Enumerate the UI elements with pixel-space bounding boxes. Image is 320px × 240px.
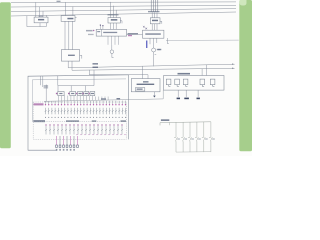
- K1 left tag line2: [88, 34, 94, 35]
- UPS right tick: [80, 55, 82, 58]
- U3 bottom wires: [111, 23, 117, 29]
- solenoid branch 6: [209, 122, 212, 152]
- M2 tail wire: [111, 54, 113, 58]
- bus drop 2: [70, 86, 72, 92]
- wire 24V to PLC: [141, 66, 143, 79]
- relay CR5: [210, 79, 215, 86]
- K1 bottom pins: [108, 36, 119, 45]
- branch 4 tag: [198, 138, 201, 139]
- relay output stub A: [177, 90, 179, 97]
- tap labels: [44, 85, 49, 89]
- wire 0V to PLC: [89, 70, 148, 79]
- output card divider: [33, 121, 126, 123]
- breaker CB4: [85, 93, 88, 94]
- CB4 tag: [82, 93, 83, 94]
- breaker feed wire: [57, 76, 59, 86]
- solenoid branch 5: [202, 122, 205, 152]
- solenoid branch 2: [181, 122, 184, 152]
- CB3 tag: [76, 93, 77, 94]
- cabinet enclosure: [28, 75, 129, 150]
- PSU1 aux pin 1: [149, 38, 151, 44]
- stub B label: [184, 98, 189, 100]
- 115VAC label: [128, 33, 138, 35]
- transformer T1: [34, 17, 48, 23]
- M1 label: [158, 49, 162, 50]
- relay bank 24V feed: [206, 65, 208, 76]
- cpu label: [137, 89, 143, 90]
- bus drop 3: [84, 86, 86, 92]
- UPS output pins: [68, 61, 72, 70]
- U10 ground symbol: [153, 96, 156, 98]
- branch 6 tag: [212, 138, 215, 139]
- fuse marks F1: [143, 26, 147, 29]
- breaker CB1: [59, 93, 62, 94]
- branch 1 tag: [177, 138, 180, 139]
- breaker CB2: [71, 93, 74, 94]
- input terminal dots: [45, 104, 126, 105]
- bus line L4: [11, 12, 236, 16]
- rail tap tick: [168, 123, 170, 126]
- UPS label: [68, 55, 75, 56]
- wire tag a: [101, 98, 106, 99]
- M2 tail tick: [112, 57, 114, 59]
- meter tag tick: [155, 53, 157, 55]
- return rail: [176, 151, 211, 153]
- 0V bus: [72, 68, 235, 70]
- branch 3 tag: [191, 138, 194, 139]
- PSU1 to meter wire: [153, 38, 155, 48]
- +24V wire label: [93, 63, 99, 64]
- starter aux pins: [100, 26, 103, 30]
- +24V arrowhead: [232, 63, 235, 65]
- output terminal dots: [45, 124, 122, 125]
- PLC IO dashed frame: [33, 102, 126, 139]
- input terminal row: [46, 101, 126, 104]
- drop wires to drive U3: [111, 2, 117, 18]
- harness connectors: [56, 145, 79, 147]
- output contact marks: [45, 129, 123, 131]
- incoming feeder verticals: [151, 0, 158, 12]
- U3 terminal labels: [108, 14, 119, 15]
- inner panel border: [32, 79, 126, 122]
- fuse pins into T4: [152, 13, 157, 18]
- drop wires to panel X2: [66, 2, 73, 15]
- relay CR2: [175, 79, 180, 86]
- stub C label: [197, 98, 200, 100]
- output terminal row: [46, 124, 122, 135]
- feeder drop wires to T1: [36, 2, 47, 17]
- branch 5 tag: [205, 138, 208, 139]
- 24VDC vertical label: [146, 41, 147, 49]
- stub A label: [177, 98, 180, 100]
- green margin left: [0, 2, 11, 148]
- K1 label: [103, 32, 117, 33]
- K1 to PSU wire: [127, 33, 143, 35]
- T4 ground arrow: [160, 21, 162, 24]
- U3 right pin: [120, 21, 122, 24]
- PSU1 label: [145, 33, 161, 34]
- solenoid branch 4: [195, 122, 198, 152]
- PLC rack U10: [131, 79, 160, 92]
- relay CR4: [200, 79, 205, 86]
- input card label: [34, 103, 44, 105]
- relay to PLC input wire: [44, 90, 163, 101]
- meter to +24 bus wire: [153, 52, 155, 66]
- bus line L2: [11, 5, 236, 7]
- U10 ground pin: [153, 92, 155, 96]
- T4 to PSU wires: [152, 24, 157, 30]
- U10 label line2: [137, 84, 155, 85]
- K1 tag dot: [93, 30, 94, 31]
- panel X2: [61, 16, 75, 22]
- relay bank 0V feed: [201, 69, 203, 76]
- K1 divider: [101, 29, 103, 36]
- relay bank enclosure: [164, 76, 224, 91]
- terminal id dots: [45, 117, 126, 118]
- relay CR3: [183, 79, 188, 86]
- K1 left tag: [86, 30, 93, 32]
- CB2 tag: [68, 93, 69, 94]
- solenoid branch 3: [188, 122, 191, 152]
- breaker bus wire: [58, 70, 94, 86]
- wire tag b: [117, 98, 121, 99]
- meter side label: [157, 49, 161, 50]
- relay output stub C: [197, 90, 199, 97]
- breaker CB3: [79, 93, 82, 94]
- U10 label line1: [143, 81, 149, 82]
- power supply PSU1: [143, 30, 164, 38]
- supply tap L: [39, 76, 41, 85]
- T1 neutral wire: [27, 16, 46, 27]
- 115VAC tilde: [128, 35, 132, 36]
- motor feed wire: [111, 45, 113, 50]
- U10 cpu module: [135, 88, 144, 91]
- PSU1 output wire to right: [166, 39, 239, 41]
- solenoid branch 1: [174, 122, 177, 152]
- contact slash marks: [45, 110, 127, 112]
- relay bank label: [178, 73, 191, 75]
- drive U3: [108, 18, 120, 23]
- supply tap N: [42, 76, 44, 87]
- CB1 tag: [56, 93, 57, 94]
- aux label: [92, 120, 97, 122]
- +24VDC rail label: [161, 119, 169, 121]
- U3 label: [111, 19, 118, 21]
- X2 side tick: [75, 16, 77, 18]
- input contact row: [46, 108, 126, 115]
- 24vdc out label: [66, 120, 79, 122]
- PSU1 bottom pin: [167, 38, 169, 44]
- breaker CB5: [91, 93, 94, 94]
- aux pin dots: [100, 25, 101, 26]
- green margin right: [239, 0, 252, 151]
- PSU1 aux pin 2: [156, 38, 158, 43]
- +24VDC rail: [160, 122, 211, 126]
- starter unit K1: [96, 29, 126, 36]
- bus drop 1: [57, 86, 59, 92]
- terminal feed riser: [45, 85, 47, 102]
- branch 2 tag: [184, 138, 187, 139]
- X2 label: [67, 18, 73, 20]
- bus line L3: [11, 9, 236, 12]
- +24V bus: [68, 64, 234, 68]
- motor M2: [110, 50, 114, 54]
- field wiring harness: [57, 136, 78, 145]
- T1 bottom pin: [39, 23, 41, 27]
- page corner highlight: [240, 0, 247, 6]
- 0V wire label: [93, 67, 99, 68]
- output card label: [34, 120, 46, 122]
- X2 to UPS wires: [65, 21, 73, 49]
- control transformer T4: [150, 18, 160, 24]
- T1 top label: [39, 16, 44, 17]
- relay CR1: [166, 79, 171, 86]
- T4 label: [152, 20, 158, 22]
- harness labels: [56, 149, 75, 151]
- meter M1: [152, 48, 156, 52]
- K1 sub label: [97, 31, 100, 32]
- bus tag 12: [57, 1, 61, 2]
- 0V arrowhead: [232, 68, 235, 70]
- relay output stub B: [185, 90, 187, 97]
- CB5 tag: [89, 93, 90, 94]
- feeder terminal labels: [148, 11, 160, 12]
- lower terminal dots: [76, 134, 125, 135]
- bus line L1: [11, 1, 236, 4]
- T1 label: [38, 19, 44, 21]
- breaker output wires: [59, 96, 109, 101]
- UPS unit: [61, 50, 79, 62]
- com label: [121, 120, 127, 122]
